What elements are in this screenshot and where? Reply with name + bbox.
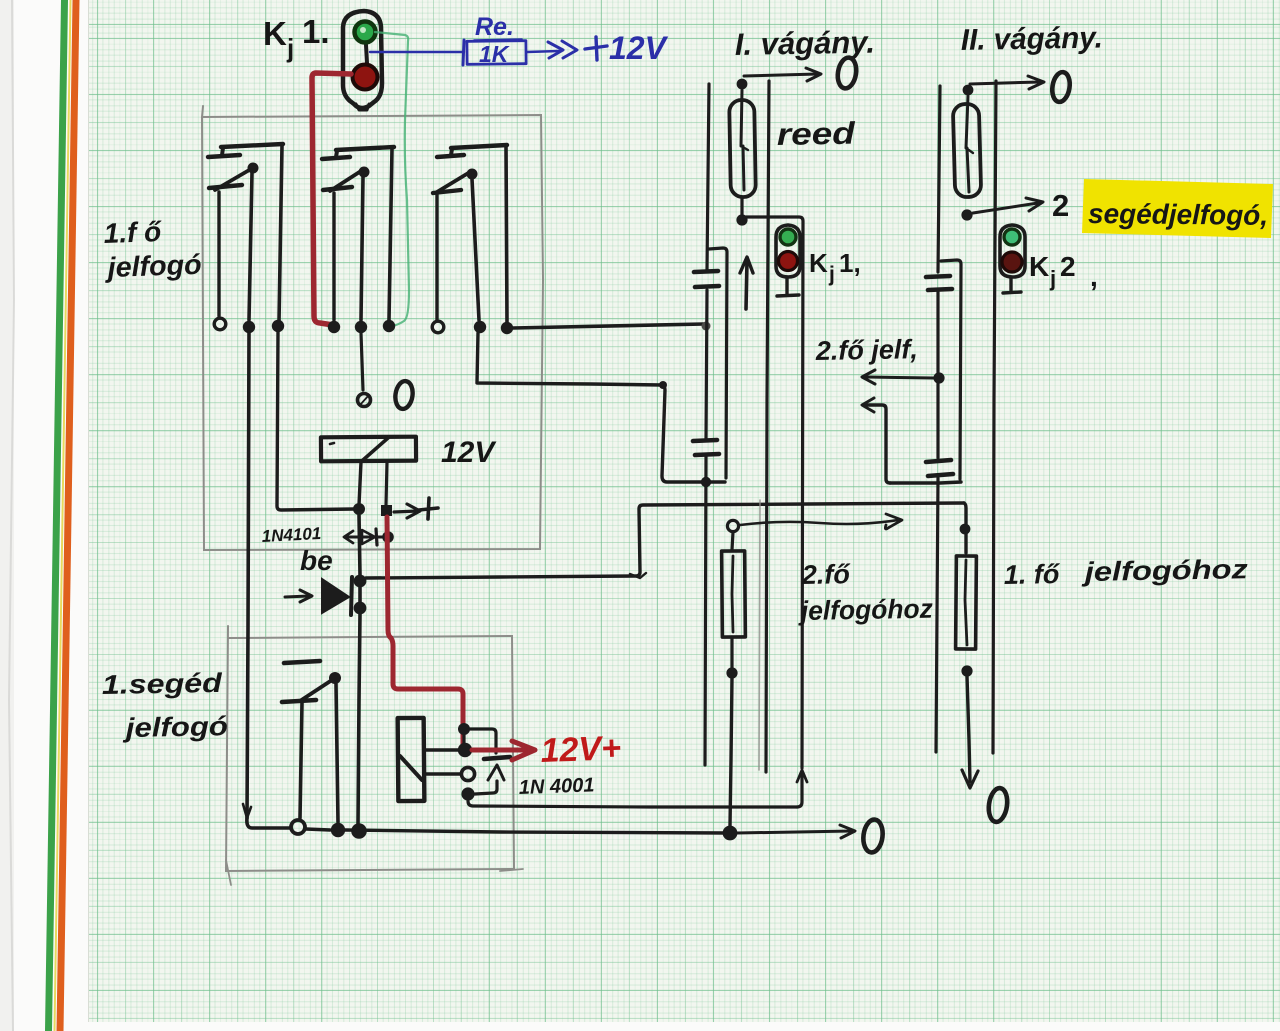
svg-text:Re.: Re. (475, 13, 514, 41)
main vertical wire (coil node down to lower box) (358, 515, 360, 824)
wire reed I to line x802 (742, 197, 803, 768)
signal head Kj1 (track I) (776, 225, 800, 296)
terminal square (+12V feed) (381, 505, 392, 516)
label Kj2 , (1029, 251, 1098, 292)
wire with down arrow to ground (1.fo jelfogohoz) (962, 676, 978, 788)
junction on rail I (702, 322, 711, 331)
junction dot below emitter (461, 787, 474, 800)
signal head Kj2 (track II) (1000, 225, 1025, 293)
junction dot bottom wire / fuse line (723, 826, 738, 841)
capacitor C1 (track I upper) (694, 271, 719, 287)
junction dot (rail I bottom of cap loop) (701, 477, 711, 487)
junction dot reed I top (737, 79, 748, 90)
label 1.seged jelfogo (102, 668, 229, 743)
svg-text:reed: reed (777, 116, 857, 152)
track II right rail (993, 81, 996, 753)
wire corner up with left arrow (2.fo jelf) (862, 398, 890, 483)
svg-text:1.segéd: 1.segéd (102, 668, 223, 700)
svg-text:be: be (300, 545, 333, 576)
label 1.fo jelfogo (103, 216, 202, 283)
track I left rail (705, 84, 709, 765)
wire corner to contact circle (lower box) (247, 818, 290, 828)
reed switch (track II) (953, 96, 981, 197)
green wire: green lamp down to contact 2 (375, 32, 409, 326)
capacitor C4 (track II lower) (926, 460, 953, 476)
green lamp (main signal) (355, 22, 376, 43)
junction dot diode/red wire (382, 531, 394, 543)
svg-text:K: K (263, 15, 287, 52)
svg-text:1K: 1K (479, 41, 510, 67)
junction dot below fuse (2.fo line) (726, 667, 737, 678)
svg-text:12V+: 12V+ (540, 729, 622, 770)
svg-text:2.fő jelf,: 2.fő jelf, (815, 334, 919, 366)
svg-text:K: K (809, 248, 828, 278)
relay box 1.seged jelfogo (pencil outline) (226, 626, 523, 885)
junction dot collector node (+12V out) (458, 743, 472, 757)
junction dot below fuse (1.fo line) (961, 665, 972, 676)
yellow highlight (segedjelfogo) (1082, 179, 1273, 238)
svg-text:2.fő: 2.fő (801, 559, 852, 590)
junction dot track II rail / arrow (933, 372, 944, 383)
label Kj1, (809, 248, 861, 286)
svg-text:jelfogó: jelfogó (103, 249, 202, 283)
foot tick at wire corner (630, 573, 646, 578)
ground O (track I top) (836, 56, 859, 89)
svg-text:K: K (1029, 251, 1049, 282)
blue wire: signal to resistor (370, 51, 464, 53)
arrow to 2 segedjelfogo (973, 198, 1043, 213)
label +12V (blue) (585, 30, 669, 66)
svg-text:I. vágány.: I. vágány. (735, 25, 876, 62)
resistor Re 1K (blue) (463, 13, 526, 67)
svg-text:j: j (1049, 266, 1056, 291)
wire fuse to bottom junction (730, 678, 732, 826)
junction dot reed II top (963, 85, 974, 96)
track II left rail (936, 86, 940, 752)
arrow to ground O (track II top) (970, 76, 1044, 89)
wire contact1 middle leg down through both boxes (247, 333, 249, 818)
transistor block (output switch) (398, 718, 461, 801)
svg-text:12V: 12V (609, 30, 669, 66)
junction dot coil/diode node (353, 503, 365, 515)
label 1.fo jelfogohoz (1004, 554, 1249, 590)
svg-text:1. fő: 1. fő (1004, 559, 1062, 590)
fuse/lamp rect (2.fo line) (722, 532, 746, 668)
relay contact 3 (1.fo jelfogo, right) (432, 145, 513, 334)
svg-text:jelfogó: jelfogó (122, 711, 228, 743)
svg-text:jelfogóhoz: jelfogóhoz (798, 594, 934, 626)
svg-text:2: 2 (1060, 251, 1076, 282)
green margin stripe (45, 0, 68, 1031)
red lamp (main signal) (353, 65, 378, 90)
svg-text:jelfogóhoz: jelfogóhoz (1081, 554, 1249, 587)
svg-text:1,: 1, (839, 248, 861, 278)
svg-text:j: j (828, 263, 835, 286)
track I right rail (766, 81, 769, 772)
wire emitter node to track section (468, 801, 797, 807)
wire track II cap loop bottom (890, 482, 961, 483)
svg-text:12V: 12V (441, 436, 497, 469)
arrow + plus (+ feed marker) (394, 498, 438, 519)
svg-text:II. vágány.: II. vágány. (961, 21, 1104, 56)
lower box contact (1.seged jelfogo) (282, 661, 345, 837)
plug circle above coil (358, 394, 371, 407)
svg-text:1.: 1. (302, 13, 330, 50)
wire LED node right and up to +12V rail (to 1.fo jelfogohoz) (366, 503, 964, 578)
red wire: +12V feed down to transistor node (387, 517, 463, 745)
relay contact 1 (1.fo jelfogo, left) (208, 144, 284, 333)
junction dot (cap loop corner) (659, 381, 667, 389)
svg-text:2: 2 (1052, 188, 1069, 223)
diode D2 1N4001 loop (464, 729, 510, 794)
junction dot on 1.fo feed line (960, 524, 971, 535)
reed switch (track I) (729, 90, 756, 197)
bypass wire (track II jog) (941, 260, 961, 479)
junction dot reed I bottom (736, 214, 747, 225)
left page edge shading (0, 0, 14, 1031)
left arrow from rail (2.fo jelf) (862, 370, 934, 384)
junction dot main wire bottom (351, 823, 367, 839)
bottom wire to ground (lower) (306, 829, 727, 833)
label 2.fo jelfogohoz (798, 559, 934, 626)
wire contact2 middle to plug circle (361, 333, 363, 390)
junction dot below LED (354, 602, 367, 615)
wire contact3 middle to capacitor loop (477, 333, 725, 482)
emitter ring terminal (461, 767, 474, 780)
red arrow 12V+ (472, 741, 535, 760)
arrow tick bottom of long left wire (243, 804, 251, 818)
bypass wire (track I jog) (709, 248, 727, 478)
relay contact 2 (1.fo jelfogo, middle) (322, 147, 395, 333)
red wire: red lamp to contact 2 (312, 73, 351, 325)
ground O (bottom) (862, 818, 885, 853)
capacitor C3 (track II upper) (926, 276, 952, 290)
arrow to ground O (track I top) (744, 68, 821, 81)
ground O (track II top) (1050, 71, 1071, 103)
svg-text:1N4101: 1N4101 (261, 524, 321, 546)
junction dot above LED (354, 575, 367, 588)
label Kj 1. (main signal) (263, 13, 330, 63)
ground O beside coil (394, 380, 415, 410)
ground O (1.fo jelfogohoz) (987, 787, 1010, 823)
svg-text:1.f ő: 1.f ő (103, 216, 163, 249)
yellow margin pinstripe (54, 0, 72, 1031)
junction dot reed II bottom (961, 209, 972, 220)
wavy arrow to 2.fo jelfogohoz (740, 514, 902, 529)
plug circle top of fuse line (2.fo jelfogohoz) (727, 520, 738, 531)
relay coil 12V (321, 437, 416, 462)
svg-text:segédjelfogó,: segédjelfogó, (1088, 198, 1268, 231)
relay box 1.fo jelfogo (pencil outline) (202, 106, 543, 550)
orange margin stripe (57, 0, 80, 1031)
svg-text:j: j (286, 33, 294, 63)
blue wire + arrow to +12V (527, 41, 577, 58)
fuse/lamp rect (1.fo line) (956, 556, 977, 649)
svg-text:1N 4001: 1N 4001 (518, 774, 594, 799)
wire down from +12V rail to fuse (1.fo line) (964, 503, 966, 553)
capacitor C2 (track I lower) (693, 440, 719, 455)
wire contact1 right leg down to coil row (277, 332, 355, 510)
pencil ghost line beside rail (759, 500, 760, 770)
up arrow (track I direction) (740, 257, 753, 309)
signal head Kj1 (main, top) (343, 11, 382, 110)
junction dot top of diode loop (458, 723, 470, 735)
wire corner up with arrow (to line x802) (797, 770, 807, 807)
LED indicator (be) (285, 577, 352, 615)
diode D1 1N4101 (344, 529, 384, 545)
wire coil left lead down to junction (359, 462, 361, 505)
svg-text:,: , (1090, 261, 1098, 292)
wire coil right lead down (386, 462, 387, 505)
arrow to bottom ground (737, 825, 855, 838)
wire contact3 right to track I rail (513, 324, 704, 328)
